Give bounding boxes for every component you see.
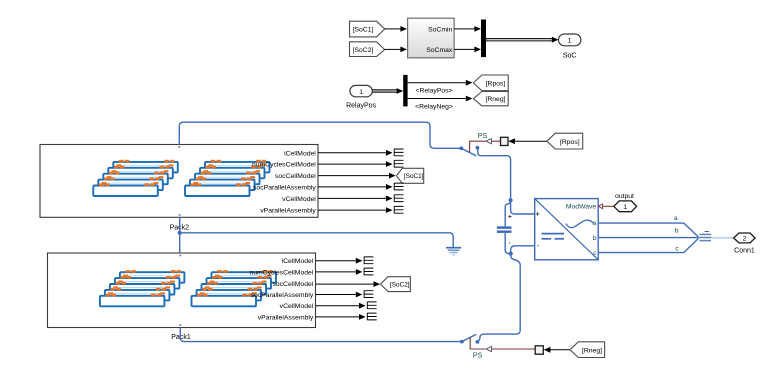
wire mux to SoC outport (vector): [486, 37, 559, 43]
wire SoC1 to MinMax: [385, 26, 407, 32]
svg-text:<RelayPos>: <RelayPos>: [415, 87, 452, 94]
block Pack2: [40, 145, 318, 232]
wire RelayPos signal to [Rpos]: [408, 80, 473, 95]
wire capacitor bottom branch: [505, 233, 511, 254]
svg-text:ModWave: ModWave: [566, 204, 597, 211]
terminator vCellModel: [394, 195, 403, 202]
outport 1 SoC: [559, 34, 581, 60]
wire numCyclesCellModel to terminator: [318, 161, 393, 167]
wire [Rneg] from tag to converter: [544, 347, 570, 353]
wire phase c: [598, 239, 698, 253]
svg-text:iCellModel: iCellModel: [282, 258, 314, 265]
svg-text:1: 1: [623, 204, 627, 211]
svg-text:b: b: [675, 228, 679, 235]
wire iCellModel to terminator: [318, 150, 393, 156]
svg-text:[SoC1]: [SoC1]: [404, 173, 424, 180]
junction dot -rail: [509, 252, 513, 256]
svg-text:vParallelAssembly: vParallelAssembly: [258, 314, 314, 321]
wire output port to ModWave: [603, 205, 614, 207]
svg-text:socCellModel: socCellModel: [275, 173, 316, 180]
terminator vCellModel Pack1: [367, 302, 376, 309]
svg-text:SoC: SoC: [563, 53, 577, 60]
demux bus selector: [403, 75, 407, 107]
svg-text:[SoC2]: [SoC2]: [390, 282, 410, 289]
svg-text:vCellModel: vCellModel: [280, 303, 314, 310]
control line switch1: [470, 139, 501, 153]
svg-text:1: 1: [568, 37, 572, 44]
svg-text:c: c: [675, 246, 679, 253]
goto tag [SoC2]: [381, 277, 411, 292]
from tag [Rpos] right: [547, 133, 583, 149]
svg-text:PS: PS: [473, 350, 483, 359]
PS-Simulink converter square bottom: [535, 346, 543, 354]
svg-text:socParallelAssembly: socParallelAssembly: [251, 292, 314, 299]
svg-text:numCyclesCellModel: numCyclesCellModel: [249, 269, 313, 276]
wire vCellModel to terminator (Pack1): [316, 303, 366, 309]
svg-text:SoCmin: SoCmin: [428, 26, 452, 33]
svg-text:~: ~: [704, 227, 709, 237]
svg-text:[Rpos]: [Rpos]: [560, 139, 580, 146]
wire Pack1 bottom to switch2: [180, 328, 462, 342]
control line switch2: [470, 337, 535, 351]
switch1 lever: [461, 148, 476, 156]
terminator vParallelAssembly Pack1: [367, 313, 376, 320]
terminator socParallelAssembly Pack1: [364, 291, 373, 298]
wire -rail converter to cap junction: [511, 246, 535, 254]
svg-text:[Rneg]: [Rneg]: [582, 347, 602, 354]
wire +rail to converter: [511, 200, 535, 214]
three-phase bundle node: [698, 227, 712, 241]
terminator iCellModel Pack1: [364, 257, 373, 264]
svg-text:[SoC1]: [SoC1]: [353, 27, 374, 34]
block DC-AC converter: [535, 199, 599, 260]
svg-text:[SoC2]: [SoC2]: [353, 47, 374, 54]
junction dot +rail: [509, 198, 513, 202]
wire -rail down to switch2: [477, 254, 520, 342]
wire phase a: [598, 223, 698, 237]
wire iCellModel to terminator (Pack1): [316, 258, 363, 264]
svg-text:SoCmax: SoCmax: [426, 47, 453, 54]
battery stack Pack2 right: [185, 160, 270, 196]
wire vCellModel to terminator: [318, 196, 393, 202]
terminator numCyclesCellModel: [394, 160, 403, 167]
wire RelayNeg signal to [Rneg]: [408, 96, 473, 111]
svg-text:c: c: [593, 250, 597, 257]
svg-text:2: 2: [743, 236, 747, 243]
wire RelayPos to demux (vector): [372, 88, 403, 94]
wire phase b: [598, 237, 697, 239]
ModWave port triangle: [598, 204, 602, 209]
svg-text:<RelayNeg>: <RelayNeg>: [415, 104, 453, 111]
wire SoC2 to MinMax: [385, 47, 407, 53]
svg-text:socCellModel: socCellModel: [272, 281, 313, 288]
from tag [SoC2]: [350, 42, 385, 57]
mux: [481, 20, 486, 58]
wire capacitor top branch: [505, 200, 510, 226]
PS-Simulink converter square top: [501, 137, 509, 145]
terminator socParallelAssembly: [394, 183, 403, 190]
Pack2 output port labels: [252, 150, 316, 214]
wire Pack2 bottom to Pack1 top: [179, 217, 181, 253]
wire vParallelAssembly to terminator (Pack1): [316, 314, 366, 320]
svg-text:PS: PS: [478, 131, 488, 140]
terminator vParallelAssembly: [394, 206, 403, 213]
svg-text:vCellModel: vCellModel: [282, 196, 316, 203]
wire [Rpos] from tag to converter: [508, 138, 547, 144]
svg-text:a: a: [674, 215, 678, 222]
svg-text:RelayPos: RelayPos: [346, 102, 376, 109]
svg-text:output: output: [615, 193, 634, 200]
terminator numCyclesCellModel Pack1: [364, 268, 373, 275]
Pack1 output port labels: [249, 258, 313, 321]
from tag [SoC1]: [350, 21, 385, 37]
wire socParallelAssembly to terminator (Pack1): [316, 292, 363, 298]
svg-text:a: a: [593, 220, 597, 227]
terminator iCellModel: [394, 149, 403, 156]
wire socCellModel to goto SoC2: [316, 281, 381, 287]
switch2 lever: [462, 334, 476, 341]
switch1 contact dots: [459, 146, 463, 150]
connection port 1 output: [614, 193, 637, 212]
wire vParallelAssembly to terminator: [318, 207, 393, 213]
svg-text:Conn1: Conn1: [734, 248, 755, 255]
battery stack Pack1 left: [100, 270, 184, 306]
svg-text:[Rpos]: [Rpos]: [486, 81, 506, 88]
svg-text:b: b: [593, 235, 597, 242]
goto tag [Rneg] top: [473, 92, 508, 106]
junction dot packs mid: [178, 231, 182, 235]
svg-text:[Rneg]: [Rneg]: [485, 96, 505, 103]
wire bundle to Conn1: [711, 237, 734, 239]
inport 1 RelayPos: [346, 85, 376, 109]
wire midpoint to ground: [180, 233, 454, 247]
svg-text:iCellModel: iCellModel: [284, 150, 316, 157]
goto tag [SoC1]: [396, 168, 423, 183]
svg-text:1: 1: [359, 89, 363, 96]
block MinMax SoCmin/SoCmax: [408, 18, 455, 58]
svg-text:socParallelAssembly: socParallelAssembly: [253, 184, 316, 191]
switch2 contact dots: [460, 340, 464, 344]
block Pack1: [48, 253, 316, 341]
wire SoCmax to mux: [454, 47, 481, 53]
wire Pack2 top to switch1: [179, 122, 461, 148]
capacitor C: [497, 215, 512, 244]
wire socCellModel to goto SoC1: [318, 173, 396, 179]
wire switch1 contact to +rail: [477, 148, 510, 201]
ground reference: [446, 248, 461, 255]
connection port 2 Conn1: [734, 233, 755, 255]
wire socParallelAssembly to terminator: [318, 184, 393, 190]
wire SoCmin to mux: [454, 26, 481, 32]
wire numCyclesCellModel to terminator (Pack1): [316, 269, 363, 275]
svg-text:numCyclesCellModel: numCyclesCellModel: [252, 162, 316, 169]
svg-text:vParallelAssembly: vParallelAssembly: [260, 208, 316, 215]
battery stack Pack2 left: [93, 160, 178, 196]
battery stack Pack1 right: [192, 270, 277, 306]
goto tag [Rpos] top: [473, 75, 508, 91]
from tag [Rneg] right: [570, 342, 605, 358]
